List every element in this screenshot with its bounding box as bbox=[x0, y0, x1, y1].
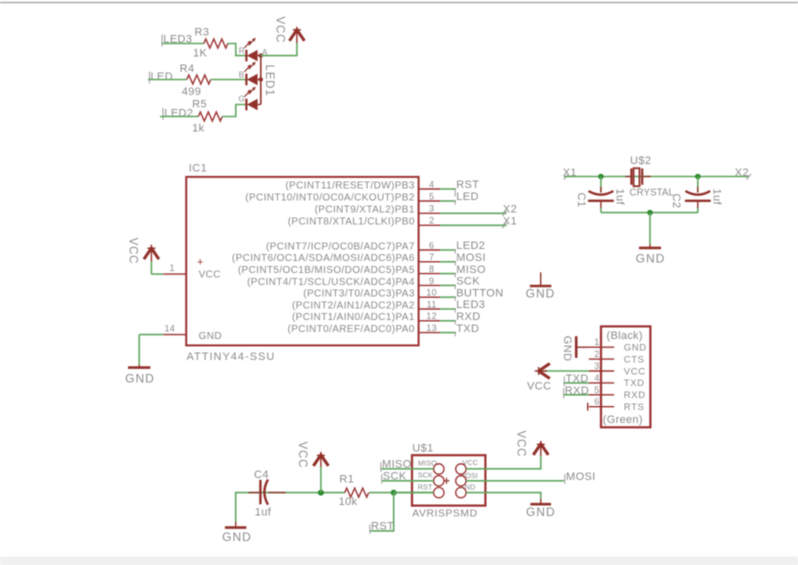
svg-text:GND: GND bbox=[636, 251, 666, 265]
svg-text:GND: GND bbox=[526, 505, 556, 519]
IC IC1 body bbox=[186, 163, 418, 364]
resistor R3 bbox=[193, 27, 228, 60]
svg-text:GND: GND bbox=[624, 343, 647, 354]
supply VCC (FTDI, left-pointing) bbox=[527, 364, 551, 393]
svg-text:RXD: RXD bbox=[624, 390, 646, 401]
svg-text:LED2: LED2 bbox=[164, 108, 193, 120]
svg-text:12: 12 bbox=[426, 311, 437, 321]
svg-text:(PCINT6/OC1A/SDA/MOSI/ADC6)PA6: (PCINT6/OC1A/SDA/MOSI/ADC6)PA6 bbox=[232, 253, 415, 264]
svg-text:LED2: LED2 bbox=[456, 240, 485, 252]
node LED label bbox=[150, 71, 174, 84]
wire VCC drop bbox=[320, 467, 322, 493]
svg-text:G: G bbox=[239, 95, 245, 104]
svg-text:3: 3 bbox=[594, 361, 599, 371]
junction (RST drop) bbox=[391, 490, 397, 496]
svg-text:VCC: VCC bbox=[296, 442, 308, 469]
junction (X2/C2) bbox=[695, 174, 701, 180]
svg-text:VCC: VCC bbox=[127, 238, 139, 265]
svg-text:C1: C1 bbox=[575, 193, 587, 208]
svg-text:(PCINT8/XTAL1/CLKI)PB0: (PCINT8/XTAL1/CLKI)PB0 bbox=[288, 217, 415, 228]
wire pin1 to VCC bbox=[150, 261, 152, 274]
svg-text:10k: 10k bbox=[339, 496, 358, 508]
connector FTDI body bbox=[601, 326, 650, 427]
wire FTDI VCC bbox=[544, 370, 589, 372]
resistor R4 bbox=[180, 63, 211, 98]
svg-text:X2: X2 bbox=[735, 167, 749, 179]
svg-text:1K: 1K bbox=[193, 48, 208, 60]
node LED3 label bbox=[162, 34, 192, 47]
svg-text:(PCINT3/T0/ADC3)PA3: (PCINT3/T0/ADC3)PA3 bbox=[303, 289, 415, 300]
diode B bbox=[245, 74, 247, 86]
svg-text:RTS: RTS bbox=[624, 402, 645, 413]
svg-text:(PCINT0/AREF/ADC0)PA0: (PCINT0/AREF/ADC0)PA0 bbox=[288, 324, 415, 335]
pin 2 CTS bbox=[589, 349, 645, 365]
node SCK (ISP) bbox=[382, 471, 434, 484]
svg-text:CRYSTAL: CRYSTAL bbox=[630, 188, 675, 199]
pin 8 MISO bbox=[419, 264, 486, 278]
capacitor C1 bbox=[575, 177, 625, 213]
svg-text:10: 10 bbox=[426, 288, 437, 298]
svg-text:(Green): (Green) bbox=[603, 414, 643, 426]
svg-text:VCC: VCC bbox=[515, 431, 527, 458]
wire C4 to GND bbox=[235, 492, 237, 522]
svg-text:R5: R5 bbox=[192, 99, 207, 111]
svg-text:(Black): (Black) bbox=[607, 330, 643, 342]
pin 5 RXD bbox=[589, 385, 646, 401]
svg-text:+: + bbox=[197, 257, 203, 269]
ground (below pin 14) bbox=[125, 365, 155, 386]
svg-text:VCC: VCC bbox=[199, 270, 221, 281]
svg-text:2: 2 bbox=[594, 349, 599, 359]
svg-text:1k: 1k bbox=[192, 123, 205, 135]
wire ISP VCC bbox=[466, 456, 541, 469]
pin 6 RTS bbox=[588, 397, 645, 413]
pin 10 BUTTON bbox=[419, 287, 504, 301]
svg-text:2: 2 bbox=[429, 216, 434, 226]
svg-text:(PCINT11/RESET/DW)PB3: (PCINT11/RESET/DW)PB3 bbox=[285, 180, 415, 191]
wire to crystal GND bbox=[649, 213, 651, 245]
diode G bbox=[245, 99, 247, 111]
svg-text:GND: GND bbox=[561, 336, 573, 362]
svg-text:1uf: 1uf bbox=[255, 506, 272, 518]
svg-text:GND: GND bbox=[125, 372, 155, 386]
svg-text:TXD: TXD bbox=[456, 323, 479, 335]
node TXD (FTDI) bbox=[563, 373, 588, 386]
capacitor C2 bbox=[670, 177, 722, 213]
node X1 bbox=[563, 167, 577, 180]
svg-text:(PCINT10/INT0/OC0A/CKOUT)PB2: (PCINT10/INT0/OC0A/CKOUT)PB2 bbox=[245, 192, 415, 203]
svg-text:GND: GND bbox=[526, 286, 556, 300]
node X2 bbox=[735, 167, 751, 180]
wire anode to VCC bbox=[261, 43, 297, 56]
svg-text:VCC: VCC bbox=[273, 17, 285, 44]
svg-text:5: 5 bbox=[429, 191, 434, 201]
svg-text:VCC: VCC bbox=[624, 366, 646, 377]
svg-text:RST: RST bbox=[456, 179, 479, 191]
svg-text:1: 1 bbox=[170, 263, 175, 273]
top border line bbox=[0, 2, 798, 4]
svg-text:MISO: MISO bbox=[382, 458, 412, 470]
svg-text:RST: RST bbox=[371, 520, 394, 532]
svg-text:BUTTON: BUTTON bbox=[456, 287, 503, 299]
node MISO (ISP) bbox=[381, 458, 434, 472]
svg-text:6: 6 bbox=[429, 240, 434, 250]
resistor R5 bbox=[192, 99, 222, 135]
svg-text:CTS: CTS bbox=[624, 354, 645, 365]
svg-text:5: 5 bbox=[594, 385, 599, 395]
svg-text:GND: GND bbox=[199, 331, 222, 342]
svg-text:X2: X2 bbox=[503, 203, 517, 215]
wire ISP GND bbox=[466, 493, 541, 499]
svg-text:SCK: SCK bbox=[456, 276, 480, 288]
ground (mid, standalone) bbox=[526, 272, 556, 300]
svg-text:U$2: U$2 bbox=[630, 155, 651, 167]
svg-text:MISO: MISO bbox=[456, 264, 486, 276]
wire RST row into ISP bbox=[394, 492, 434, 494]
svg-text:(PCINT7/ICP/OC0B/ADC7)PA7: (PCINT7/ICP/OC0B/ADC7)PA7 bbox=[266, 241, 415, 252]
pin 11 LED3 bbox=[419, 299, 486, 313]
svg-text:AVRISPSMD: AVRISPSMD bbox=[412, 509, 477, 520]
supply VCC (above C4/R1) bbox=[296, 442, 328, 469]
svg-text:U$1: U$1 bbox=[412, 443, 433, 455]
svg-text:GND: GND bbox=[222, 530, 252, 544]
svg-text:14: 14 bbox=[165, 324, 176, 334]
pin 6 LED2 bbox=[419, 240, 486, 254]
svg-text:R3: R3 bbox=[195, 27, 210, 39]
svg-text:R: R bbox=[239, 47, 245, 56]
wire RST label drop bbox=[370, 493, 394, 531]
svg-text:MOSI: MOSI bbox=[566, 471, 596, 483]
svg-text:3: 3 bbox=[429, 204, 434, 214]
junction (X1/C1) bbox=[598, 174, 604, 180]
svg-text:RXD: RXD bbox=[456, 311, 480, 323]
pin 3 VCC bbox=[589, 361, 646, 377]
svg-text:1: 1 bbox=[594, 337, 599, 347]
svg-text:1uf: 1uf bbox=[711, 189, 723, 206]
pin 1 GND bbox=[589, 337, 647, 353]
anode bus bbox=[260, 56, 262, 105]
wire main bottom net bbox=[236, 492, 345, 494]
svg-text:LED: LED bbox=[151, 71, 174, 83]
pin 9 SCK bbox=[419, 276, 481, 290]
svg-text:4: 4 bbox=[429, 179, 434, 189]
crystal U$2 bbox=[625, 155, 674, 199]
supply VCC (left of IC1) bbox=[127, 238, 159, 265]
pin 12 RXD bbox=[419, 311, 481, 325]
pin 3 X2 bbox=[419, 203, 518, 216]
wire LED to R4 bbox=[148, 79, 187, 81]
svg-text:9: 9 bbox=[429, 276, 434, 286]
svg-text:VCC: VCC bbox=[527, 381, 551, 393]
junction (crystal gnd) bbox=[647, 210, 653, 216]
ground (FTDI pin1, rotated) bbox=[561, 336, 589, 362]
svg-text:6: 6 bbox=[594, 397, 599, 407]
pin 14 GND bbox=[139, 324, 186, 335]
svg-text:(PCINT9/XTAL2)PB1: (PCINT9/XTAL2)PB1 bbox=[315, 205, 415, 216]
svg-text:(PCINT5/OC1B/MISO/DO/ADC5)PA5: (PCINT5/OC1B/MISO/DO/ADC5)PA5 bbox=[238, 265, 415, 276]
svg-text:7: 7 bbox=[429, 252, 434, 262]
svg-text:TXD: TXD bbox=[624, 378, 645, 389]
svg-text:LED3: LED3 bbox=[456, 299, 485, 311]
svg-text:499: 499 bbox=[182, 86, 202, 98]
svg-text:RST: RST bbox=[418, 483, 433, 492]
pin 1 VCC bbox=[151, 263, 186, 274]
ground (C4) bbox=[222, 522, 252, 544]
node RST bbox=[370, 520, 394, 534]
svg-text:X1: X1 bbox=[503, 215, 517, 227]
wire R5 to LED G bbox=[222, 105, 245, 117]
svg-text:4: 4 bbox=[594, 373, 599, 383]
ground (crystal) bbox=[636, 244, 666, 265]
svg-text:13: 13 bbox=[426, 323, 437, 333]
svg-text:11: 11 bbox=[427, 299, 437, 309]
ground (ISP) bbox=[526, 499, 556, 520]
wire LED3 to R3 bbox=[162, 43, 204, 45]
node RXD (FTDI) bbox=[563, 385, 589, 398]
junction (VCC / bottom net) bbox=[318, 490, 324, 496]
svg-text:R4: R4 bbox=[180, 63, 195, 75]
svg-text:MOSI: MOSI bbox=[456, 252, 486, 264]
pin 5 LED bbox=[419, 191, 479, 205]
pin 2 X1 bbox=[419, 215, 518, 228]
wire R4 to LED B bbox=[211, 79, 246, 81]
svg-text:TXD: TXD bbox=[566, 373, 589, 385]
svg-text:ATTINY44-SSU: ATTINY44-SSU bbox=[187, 351, 276, 363]
pin 4 RST bbox=[419, 179, 480, 196]
svg-text:(PCINT1/AIN0/ADC1)PA1: (PCINT1/AIN0/ADC1)PA1 bbox=[292, 312, 415, 323]
LED LED1 (RGB, common anode) bbox=[239, 38, 275, 111]
svg-text:R1: R1 bbox=[339, 474, 354, 486]
connector AVRISP U$1 bbox=[412, 443, 485, 520]
wire ISP MOSI bbox=[466, 480, 564, 482]
supply VCC (top, for LED1) bbox=[273, 17, 304, 44]
svg-text:IC1: IC1 bbox=[189, 163, 207, 175]
svg-text:SCK: SCK bbox=[383, 471, 407, 483]
wire LED2 to R5 bbox=[160, 116, 198, 118]
resistor R1 bbox=[339, 474, 369, 508]
svg-text:(PCINT2/AIN1/ADC2)PA2: (PCINT2/AIN1/ADC2)PA2 bbox=[292, 300, 415, 311]
wire pin14 to GND bbox=[138, 335, 140, 365]
diode R bbox=[245, 50, 247, 62]
svg-text:C4: C4 bbox=[254, 469, 269, 481]
pin 4 TXD bbox=[589, 373, 645, 389]
bottom status bar bbox=[0, 557, 798, 565]
svg-text:RXD: RXD bbox=[565, 385, 589, 397]
svg-text:LED: LED bbox=[456, 191, 479, 203]
wire X1-X2 bbox=[564, 176, 749, 178]
svg-text:SCK: SCK bbox=[418, 471, 433, 480]
wire R3 to LED R bbox=[228, 44, 246, 56]
svg-text:(PCINT4/T1/SCL/USCK/ADC4)PA4: (PCINT4/T1/SCL/USCK/ADC4)PA4 bbox=[247, 277, 415, 288]
svg-text:1uf: 1uf bbox=[614, 189, 626, 206]
svg-text:C2: C2 bbox=[670, 194, 682, 209]
supply VCC (right of ISP) bbox=[515, 431, 549, 458]
pin 13 TXD bbox=[419, 323, 480, 337]
pin 7 MOSI bbox=[419, 252, 486, 266]
node LED2 label bbox=[163, 108, 193, 121]
svg-text:8: 8 bbox=[429, 264, 434, 274]
wire C1-C2 bottom bbox=[601, 212, 698, 214]
svg-text:LED1: LED1 bbox=[263, 65, 275, 97]
capacitor C4 bbox=[248, 469, 285, 518]
node MOSI (ISP) bbox=[565, 471, 596, 484]
svg-text:B: B bbox=[239, 71, 245, 80]
